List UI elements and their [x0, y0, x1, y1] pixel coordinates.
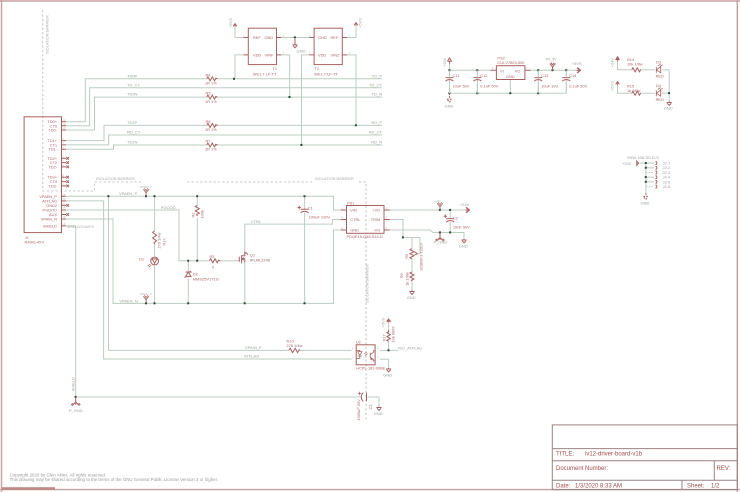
svg-text:GND: GND — [297, 49, 306, 54]
svg-text:VIN: VIN — [350, 208, 357, 213]
svg-text:TD_CT: TD_CT — [369, 82, 382, 87]
svg-text:RD_CT: RD_CT — [127, 130, 141, 135]
svg-text:100uF 100V: 100uF 100V — [309, 214, 331, 219]
svg-text:CUI-V7803-500: CUI-V7803-500 — [497, 60, 525, 65]
svg-text:SHIELD/CHAS*V: SHIELD/CHAS*V — [67, 225, 95, 229]
svg-text:GND: GND — [641, 201, 650, 206]
svg-text:14: 14 — [62, 192, 66, 196]
svg-text:HCPL-181-00BE: HCPL-181-00BE — [356, 365, 385, 370]
svg-text:1R 1%: 1R 1% — [205, 81, 217, 86]
svg-text:11: 11 — [62, 202, 65, 206]
svg-text:C11: C11 — [453, 73, 460, 78]
svg-text:GND: GND — [265, 35, 274, 40]
svg-text:RED: RED — [656, 74, 664, 79]
svg-text:GND: GND — [318, 35, 327, 40]
svg-text:SHIELD: SHIELD — [43, 223, 57, 228]
svg-text:TD1P: TD1P — [127, 120, 138, 125]
svg-text:VDD: VDD — [253, 52, 261, 57]
svg-text:3296W-1-102LF: 3296W-1-102LF — [418, 242, 423, 271]
svg-text:1/3/2020 8:33 AM: 1/3/2020 8:33 AM — [575, 484, 622, 490]
svg-text:ISO_ATFLAG: ISO_ATFLAG — [398, 345, 422, 350]
svg-text:+24V: +24V — [622, 161, 632, 166]
svg-text:VDD: VDD — [318, 52, 326, 57]
svg-text:GND: GND — [383, 372, 392, 377]
svg-text:R9: R9 — [399, 273, 404, 278]
svg-text:P_GND: P_GND — [434, 240, 448, 245]
svg-text:Sheet:: Sheet: — [687, 484, 705, 490]
svg-text:TD_CT: TD_CT — [127, 82, 140, 87]
svg-text:TD1-: TD1- — [48, 147, 57, 152]
svg-text:This drawing may be shared acc: This drawing may be shared according to … — [10, 477, 218, 482]
svg-text:GND: GND — [374, 411, 383, 416]
svg-text:R5: R5 — [206, 91, 211, 96]
svg-text:VPAEN_N: VPAEN_N — [140, 292, 152, 296]
svg-text:R4: R4 — [206, 72, 212, 77]
svg-text:RD_P: RD_P — [371, 120, 382, 125]
svg-text:C2: C2 — [453, 216, 458, 221]
svg-text:ISOLATION BARRIER: ISOLATION BARRIER — [44, 15, 49, 54]
svg-text:PGOOD: PGOOD — [161, 205, 176, 210]
svg-text:GND: GND — [350, 228, 359, 233]
svg-text:VPAEN_P: VPAEN_P — [119, 191, 137, 196]
svg-text:TD0P: TD0P — [127, 73, 138, 78]
svg-text:VPAEN_P: VPAEN_P — [140, 185, 152, 189]
svg-text:REF: REF — [331, 35, 339, 40]
svg-text:R6: R6 — [206, 119, 211, 124]
svg-text:100k: 100k — [200, 210, 205, 218]
svg-text:TITLE:: TITLE: — [556, 451, 574, 457]
svg-text:P_GND: P_GND — [69, 408, 83, 413]
svg-text:IRLML2246: IRLML2246 — [250, 257, 270, 262]
svg-text:16: 16 — [62, 197, 66, 201]
svg-text:CTRL: CTRL — [251, 219, 262, 224]
svg-text:1000uF 35V: 1000uF 35V — [356, 399, 361, 421]
svg-text:U2: U2 — [356, 340, 361, 345]
svg-text:J2-6: J2-6 — [663, 184, 672, 189]
svg-text:+5VS: +5VS — [358, 18, 363, 28]
svg-text:RD_CT: RD_CT — [369, 130, 383, 135]
svg-text:VPAIN_P: VPAIN_P — [245, 345, 262, 350]
svg-text:T1: T1 — [273, 66, 278, 71]
svg-text:VPAEN_N: VPAEN_N — [119, 298, 137, 303]
svg-text:R5: R5 — [404, 254, 409, 259]
svg-text:1R 1%: 1R 1% — [205, 147, 217, 152]
svg-text:RED: RED — [656, 97, 664, 102]
svg-text:GND: GND — [407, 295, 416, 300]
svg-text:VINZ: VINZ — [331, 52, 340, 57]
svg-text:GND: GND — [445, 104, 454, 109]
svg-text:17: 17 — [62, 211, 66, 215]
svg-text:C13: C13 — [541, 73, 548, 78]
svg-text:1R 1%: 1R 1% — [205, 99, 217, 104]
svg-text:-VO: -VO — [373, 228, 380, 233]
svg-text:0.1uF 50V: 0.1uF 50V — [480, 84, 498, 89]
svg-text:D4: D4 — [656, 83, 662, 88]
svg-text:10k 1/8w: 10k 1/8w — [627, 62, 643, 67]
svg-text:1R 1%: 1R 1% — [205, 127, 217, 132]
svg-text:C1: C1 — [308, 205, 313, 210]
svg-text:RJMG-4XX: RJMG-4XX — [25, 239, 45, 244]
svg-text:15: 15 — [62, 206, 66, 210]
svg-text:TD_N: TD_N — [372, 92, 383, 97]
svg-text:TD1N: TD1N — [127, 140, 138, 145]
svg-text:+5VS: +5VS — [572, 61, 582, 66]
svg-text:iv12-driver-board-v1b: iv12-driver-board-v1b — [585, 451, 643, 457]
svg-text:TD0-: TD0- — [48, 128, 57, 133]
svg-text:ATFLAG: ATFLAG — [244, 354, 259, 359]
svg-text:10k 0805: 10k 0805 — [391, 326, 396, 342]
svg-text:Document Number:: Document Number: — [556, 466, 608, 472]
svg-text:ISOLATION BARRIER: ISOLATION BARRIER — [96, 176, 135, 181]
svg-text:19: 19 — [62, 222, 66, 226]
svg-text:C3: C3 — [368, 405, 373, 410]
svg-text:R3: R3 — [210, 254, 215, 259]
svg-text:+24V: +24V — [460, 202, 470, 207]
svg-text:RD_N: RD_N — [371, 140, 382, 145]
svg-text:C14: C14 — [569, 73, 577, 78]
svg-text:CTRL: CTRL — [350, 217, 361, 222]
svg-text:WE1.7-LF-TT: WE1.7-LF-TT — [253, 71, 277, 76]
svg-text:D1: D1 — [139, 257, 144, 262]
svg-text:ISOLATION BARRIER: ISOLATION BARRIER — [315, 176, 354, 181]
svg-text:+24V: +24V — [435, 199, 442, 203]
svg-text:+5VS: +5VS — [380, 317, 385, 327]
svg-text:+5VS: +5VS — [610, 81, 615, 91]
svg-text:MMSZ5V1T1G: MMSZ5V1T1G — [193, 277, 219, 282]
svg-text:D3: D3 — [656, 59, 661, 64]
svg-text:+24V: +24V — [610, 58, 615, 68]
svg-text:1k 1/8w: 1k 1/8w — [627, 88, 641, 93]
svg-text:R7: R7 — [206, 139, 211, 144]
svg-text:WE1.7-LF-TT: WE1.7-LF-TT — [314, 71, 338, 76]
svg-text:10uF 50V: 10uF 50V — [453, 225, 470, 230]
svg-text:PDQE15-Q48-S14-D: PDQE15-Q48-S14-D — [347, 234, 384, 239]
svg-text:TD_P: TD_P — [372, 73, 383, 78]
svg-text:ISOLATION BARRIER: ISOLATION BARRIER — [365, 264, 370, 303]
svg-text:18: 18 — [62, 215, 66, 219]
svg-text:PS_5V: PS_5V — [546, 58, 557, 62]
svg-text:+VO: +VO — [372, 208, 380, 213]
svg-text:10uF 50V: 10uF 50V — [453, 84, 470, 89]
svg-text:TD0N: TD0N — [127, 92, 138, 97]
svg-text:10: 10 — [62, 126, 66, 130]
svg-text:C12: C12 — [480, 73, 487, 78]
svg-text:1k 1/8w: 1k 1/8w — [404, 272, 409, 286]
svg-text:R2: R2 — [191, 213, 196, 218]
svg-text:276 1/4w: 276 1/4w — [287, 343, 303, 348]
svg-text:Date:: Date: — [556, 484, 571, 490]
svg-text:TD2-: TD2- — [48, 164, 57, 169]
svg-text:REV:: REV: — [717, 466, 731, 472]
svg-text:+5VS: +5VS — [228, 18, 233, 28]
svg-text:VPAIN_N: VPAIN_N — [41, 217, 58, 222]
svg-text:0.1uF 50V: 0.1uF 50V — [569, 84, 587, 89]
svg-text:1/2: 1/2 — [711, 484, 720, 490]
svg-text:REF: REF — [253, 35, 261, 40]
svg-text:GND: GND — [459, 243, 468, 248]
svg-text:VI: VI — [500, 68, 504, 73]
svg-text:VO: VO — [515, 68, 521, 73]
svg-text:R14: R14 — [161, 238, 166, 246]
svg-text:T2: T2 — [315, 66, 320, 71]
svg-text:TD3-: TD3- — [48, 183, 57, 188]
svg-text:GND: GND — [664, 106, 673, 111]
svg-text:PS1: PS1 — [347, 200, 354, 205]
svg-text:TRIM: TRIM — [371, 217, 381, 222]
svg-text:+24V: +24V — [442, 57, 447, 67]
svg-text:SHIELD: SHIELD — [70, 377, 75, 392]
svg-text:GND: GND — [506, 74, 515, 79]
svg-text:10uF 10V: 10uF 10V — [541, 84, 558, 89]
svg-text:VINF: VINF — [265, 52, 274, 57]
svg-text:SSW-106-SS-D-S: SSW-106-SS-D-S — [627, 155, 659, 160]
svg-text:R17: R17 — [382, 334, 387, 341]
